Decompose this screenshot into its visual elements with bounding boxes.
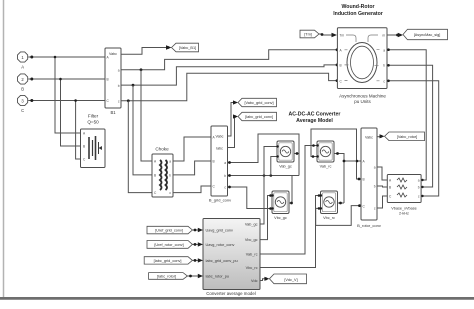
svg-text:Iabc_grid_conv_pu: Iabc_grid_conv_pu [206,259,238,263]
svg-text:Uavg_grid_conv: Uavg_grid_conv [206,229,234,233]
svg-text:B: B [213,160,215,164]
svg-text:A: A [21,65,24,70]
svg-text:b: b [374,185,376,189]
figure bottom border [0,297,474,300]
svg-text:B: B [340,64,342,68]
wire riser b to Vab_gc left-bottom [271,157,277,176]
wire machine m to goto tag [387,33,403,37]
svg-text:m: m [382,34,385,38]
svg-text:b: b [118,84,120,88]
svg-text:Vab_rc: Vab_rc [320,164,332,168]
wire port2 to B1.B [28,78,105,81]
svg-text:B: B [154,173,156,177]
input port 1 [18,52,28,70]
svg-text:a: a [418,179,420,183]
wire drop c to Choke.C [128,101,152,193]
svg-text:B_rotor_conv: B_rotor_conv [357,223,381,228]
wire tap C to Filter.C [74,99,80,159]
wire Uref_rotor_conv to converter [192,242,203,246]
input port 3 [18,95,28,113]
svg-text:a: a [224,161,226,165]
svg-text:Choke: Choke [155,147,169,152]
filter block [81,114,106,168]
wire port3 to B1.C [28,99,105,102]
svg-text:Vab_gc: Vab_gc [245,223,258,227]
svg-text:Vbc_gc: Vbc_gc [245,238,258,242]
svg-text:Vab_gc: Vab_gc [279,164,292,168]
from tag Tm [300,30,319,38]
svg-text:a: a [383,48,385,52]
from tag Uref_rotor_conv [147,241,192,249]
goto tag Vabc_grid_conv [238,98,277,106]
svg-text:[Vabc_B1]: [Vabc_B1] [179,46,196,50]
from tag Iabc_grid_conv [144,257,192,264]
goto tag Vabc_rotor [385,132,425,141]
wire Choke.a to B_grid_conv.A [173,137,211,161]
svg-text:Vbc_gc: Vbc_gc [274,216,287,220]
svg-text:Asynchronous Machine: Asynchronous Machine [339,93,386,98]
svg-text:[AsyncMac_sig]: [AsyncMac_sig] [414,33,441,37]
wire tap A to Filter.A [54,56,81,133]
from tag Uref_grid_conv [147,226,192,234]
svg-text:B_grid_conv: B_grid_conv [209,198,231,203]
goto tag Vabc_B1 [172,43,199,52]
header AC-DC-AC Converter Average Model [289,111,341,124]
wire B1.c to machine C [121,73,338,102]
wire B_rotor_conv.c to Vbase.C [377,196,387,208]
svg-text:2-kHz: 2-kHz [399,212,409,216]
wire B1.a to machine A [121,48,338,71]
svg-text:[Vdc_V]: [Vdc_V] [284,278,297,282]
wire B1.b to machine B [121,64,338,87]
wire drop b to Choke.B [133,85,152,175]
goto tag Iabc_grid_conv [238,112,277,120]
wire B_rotor_conv.b to Vbase.B [377,186,387,187]
svg-text:Vab_rc: Vab_rc [246,253,258,257]
wire Iabc_grid_conv to converter [192,258,203,262]
asynchronous machine block [337,28,387,104]
wire signal Vab_gc from converter [260,147,277,225]
svg-text:Converter average model: Converter average model [206,291,256,296]
wire rotor b to Vbase.b [387,64,433,187]
svg-text:C: C [21,108,24,113]
input port 2 [18,74,28,92]
svg-text:Vbc_rc: Vbc_rc [246,266,258,270]
bus block B_rotor_conv [357,128,381,228]
svg-text:B: B [363,178,365,182]
controlled source Vab_gc [277,141,294,168]
svg-text:b: b [224,174,226,178]
svg-text:[Tm]: [Tm] [304,33,312,37]
bus block B_grid_conv [209,126,231,203]
goto tag AsyncMac_sig [403,29,448,39]
svg-text:b: b [418,186,420,190]
svg-text:Induction Generator: Induction Generator [333,11,383,17]
figure left border [3,0,5,297]
goto tag Vdc_V [269,274,306,284]
svg-text:B: B [107,78,109,82]
wire Vab_rc left-bottom wrap to B_rotor_conv.B [311,129,361,180]
controlled source Vbc_rc [321,191,338,220]
svg-text:Vbase_xVbase: Vbase_xVbase [391,207,417,211]
wire Uref_grid_conv to converter [192,228,203,232]
wire B_grid_conv.Iabc to goto tag [228,114,239,147]
svg-text:[Iabc_rotor]: [Iabc_rotor] [157,275,176,279]
choke block [152,147,173,198]
wire Choke.c to B_grid_conv.C [173,186,211,193]
wire Vbc_rc left-bottom underwrap to B_rotor_conv.C [316,204,361,225]
svg-text:Average Model: Average Model [296,118,333,124]
wire tap B to Filter.B [59,78,80,146]
wire B_grid_conv.a wrap to Vab_gc right [228,134,300,176]
wire rotor c to Vbase.c [387,80,439,197]
svg-text:Vabc: Vabc [109,52,117,56]
wire rotor a to Vbase.a [387,48,426,180]
wire port1 to B1.A [28,56,105,59]
svg-text:a: a [374,166,376,170]
svg-text:Q=50: Q=50 [87,120,99,125]
svg-text:b: b [169,173,171,177]
bus block B1 [105,48,121,115]
source port dots [271,144,322,209]
svg-text:[Vabc_rotor]: [Vabc_rotor] [397,135,417,139]
wire B_grid_conv.c to Vbc_gc left-bottom [228,186,273,210]
wire B1.Vabc to goto tag [121,45,172,54]
controlled source Vbc_gc [272,191,289,220]
svg-text:b: b [383,64,385,68]
wire Vbc_rc right to node [338,202,345,205]
svg-text:pu Units: pu Units [354,99,371,104]
header Wound-Rotor Induction Generator [333,4,383,17]
svg-text:Vdc: Vdc [251,279,258,283]
svg-text:Wound-Rotor: Wound-Rotor [341,4,374,10]
wire B_grid_conv.Vabc to goto tag [228,100,239,136]
vbase right port dots [421,179,423,197]
wire Vab_rc right to B_rotor_conv.A [334,152,361,203]
svg-text:Vabc: Vabc [216,134,224,138]
svg-text:a: a [169,160,171,164]
svg-text:Vbc_rc: Vbc_rc [323,216,335,220]
svg-text:Filter: Filter [88,114,99,119]
controlled source Vab_rc [317,141,334,168]
svg-text:B1: B1 [110,110,116,115]
svg-text:Tm: Tm [340,34,345,38]
svg-text:[Iabc_grid_conv]: [Iabc_grid_conv] [245,115,273,119]
from tag Iabc_rotor [149,273,188,280]
wire signal Vab_rc from converter [260,144,317,254]
wire converter Vdc to goto tag [260,277,269,281]
wire drop a to Choke.A [141,70,152,161]
svg-text:Vabc: Vabc [365,136,373,140]
svg-text:B: B [21,87,24,92]
svg-text:[Uref_rotor_conv]: [Uref_rotor_conv] [154,243,183,247]
svg-text:[Iabc_grid_conv]: [Iabc_grid_conv] [154,259,182,263]
converter average model block [203,219,260,297]
svg-text:[Vabc_grid_conv]: [Vabc_grid_conv] [244,101,273,105]
wire B_rotor_conv.a to Vbase.A [377,167,387,180]
wire Choke.b to B_grid_conv.B [173,161,211,175]
measurement block Vbase [387,175,421,216]
svg-text:Uavg_rotor_conv: Uavg_rotor_conv [206,243,235,247]
wire B_grid_conv.b [228,174,300,177]
wire B_rotor_conv.Vabc to goto tag [377,134,385,138]
wire Vbc_gc right to node b [289,176,293,205]
svg-text:Iabc_rotor_pu: Iabc_rotor_pu [206,275,229,279]
wire signal Vbc_gc from converter [260,194,272,239]
svg-text:Iabc: Iabc [216,146,223,150]
wire Iabc_rotor to converter [187,274,203,278]
svg-text:a: a [118,69,120,73]
svg-text:B: B [389,186,391,190]
svg-text:B: B [83,145,85,149]
wire signal Vbc_rc from converter [260,194,321,267]
wire Tm tag to machine Tm [319,33,337,37]
svg-text:[Uref_grid_conv]: [Uref_grid_conv] [155,229,183,233]
svg-text:AC-DC-AC Converter: AC-DC-AC Converter [289,111,341,117]
